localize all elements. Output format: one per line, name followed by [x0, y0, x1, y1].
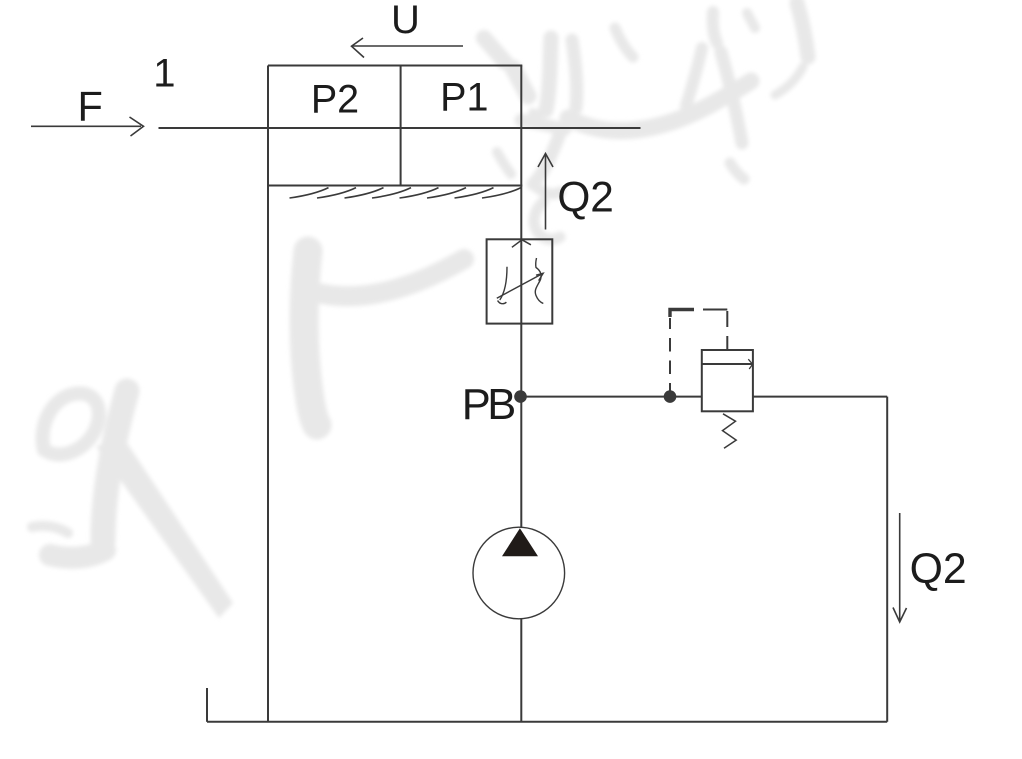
- tank left tick: [206, 688, 208, 722]
- svg-text:P1: P1: [440, 75, 488, 119]
- arrow U (pointing left): [352, 45, 463, 47]
- wire relief valve to right branch: [753, 396, 887, 398]
- svg-text:Q2: Q2: [910, 545, 967, 593]
- relief valve box: [702, 350, 753, 411]
- svg-text:1: 1: [153, 52, 175, 96]
- hatch marks under piston: [290, 188, 522, 198]
- arrow F (pointing right): [31, 125, 141, 127]
- svg-text:P2: P2: [311, 77, 359, 121]
- flow valve top arrowhead: [512, 240, 531, 248]
- vertical line pump to tank: [520, 619, 522, 722]
- wire PB to relief valve: [521, 396, 702, 398]
- node PB junction dot: [514, 390, 527, 403]
- main vertical line (cylinder right edge down to pump): [520, 66, 522, 528]
- relief valve inner arrowhead: [748, 359, 752, 369]
- relief valve spring: [723, 414, 737, 449]
- arrow Q2 up: [545, 155, 547, 230]
- pilot dashed line (right vertical): [726, 311, 728, 350]
- svg-text:U: U: [391, 0, 420, 42]
- pump circle: [473, 527, 565, 619]
- flow valve left throttle arc: [498, 267, 507, 304]
- pilot dashed line (horizontal): [703, 309, 727, 311]
- pilot dashed line (left vertical): [669, 318, 671, 397]
- svg-text:PB: PB: [462, 381, 515, 429]
- arrow Q2 down: [899, 513, 901, 621]
- relief valve inner line: [702, 363, 753, 365]
- flow valve right throttle arc: [535, 258, 543, 304]
- tank bottom line: [207, 721, 887, 723]
- cylinder piston bottom / hatch line: [268, 185, 522, 187]
- svg-text:F: F: [78, 83, 103, 130]
- pilot junction dot: [664, 390, 677, 403]
- pump triangle (flow up): [502, 528, 538, 556]
- piston rod line: [159, 127, 641, 129]
- flow control valve box: [487, 239, 553, 323]
- svg-text:Q2: Q2: [557, 174, 614, 221]
- cylinder body top edge: [268, 65, 522, 67]
- pilot dashed corner: [670, 310, 694, 318]
- cylinder left edge (long, down to tank line): [267, 66, 269, 722]
- flow valve adjustment arrow (diagonal): [497, 273, 543, 298]
- chamber divider P2/P1: [400, 66, 402, 186]
- wire right branch down: [886, 397, 888, 722]
